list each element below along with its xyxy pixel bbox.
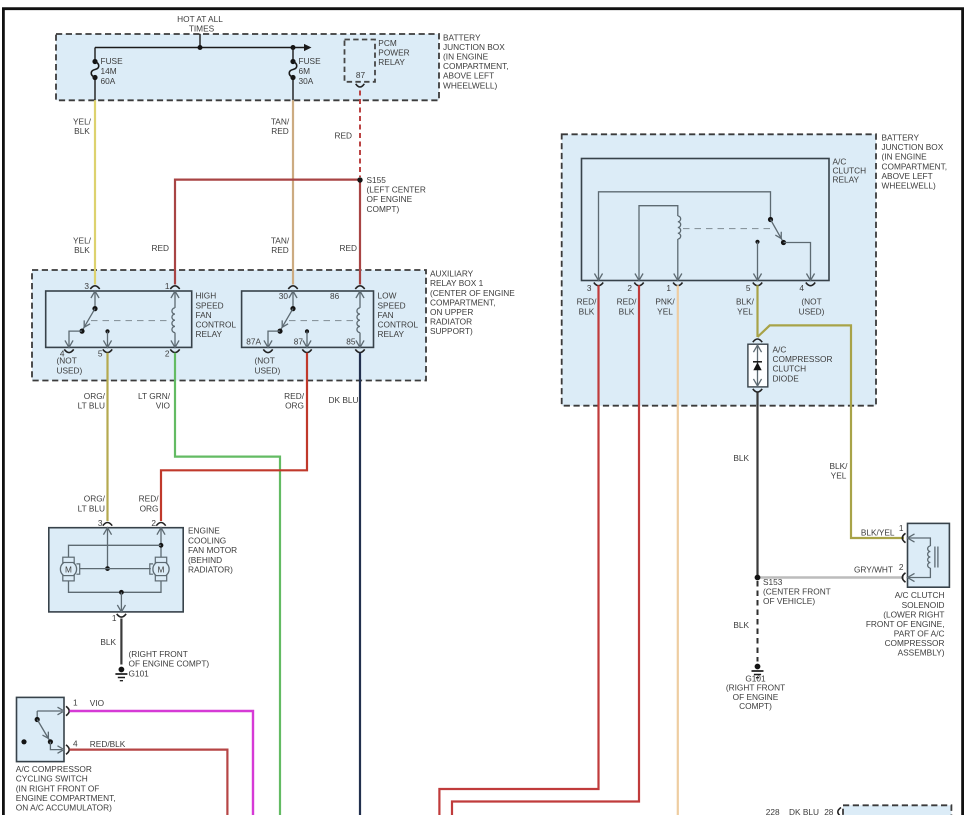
svg-text:COMPRESSOR: COMPRESSOR [773,354,833,364]
svg-text:TAN/: TAN/ [271,235,290,245]
svg-text:5: 5 [746,283,751,293]
svg-text:(LEFT CENTER: (LEFT CENTER [367,185,426,195]
svg-text:FAN MOTOR: FAN MOTOR [188,545,237,555]
svg-text:RADIATOR: RADIATOR [430,317,472,327]
svg-text:(RIGHT FRONT: (RIGHT FRONT [129,649,188,659]
svg-text:RELAY: RELAY [196,329,223,339]
svg-text:YEL: YEL [657,306,673,316]
svg-text:ORG/: ORG/ [84,494,106,504]
svg-text:30: 30 [279,291,289,301]
svg-text:(BEHIND: (BEHIND [188,555,222,565]
svg-text:(NOT: (NOT [255,356,275,366]
svg-text:A/C CLUTCH: A/C CLUTCH [895,590,945,600]
svg-text:RELAY: RELAY [378,329,405,339]
svg-text:VIO: VIO [156,401,171,411]
svg-text:(IN ENGINE: (IN ENGINE [882,152,928,162]
svg-text:BATTERY: BATTERY [882,133,920,143]
svg-text:BLK: BLK [619,306,635,316]
svg-text:BLK/YEL: BLK/YEL [861,528,895,538]
svg-text:S155: S155 [367,175,387,185]
svg-text:LT BLU: LT BLU [78,503,105,513]
svg-text:COMPT): COMPT) [367,204,400,214]
svg-text:60A: 60A [101,76,116,86]
svg-text:PART OF A/C: PART OF A/C [894,628,945,638]
svg-text:CYCLING SWITCH: CYCLING SWITCH [16,774,88,784]
svg-text:1: 1 [73,698,78,708]
svg-text:CONTROL: CONTROL [196,320,237,330]
svg-text:SPEED: SPEED [196,300,224,310]
svg-text:SOLENOID: SOLENOID [902,600,945,610]
svg-text:OF ENGINE COMPT): OF ENGINE COMPT) [129,659,210,669]
svg-text:FAN: FAN [196,310,212,320]
svg-text:1: 1 [112,613,117,623]
svg-text:COMPARTMENT,: COMPARTMENT, [443,61,509,71]
svg-text:2: 2 [627,283,632,293]
svg-text:GRY/WHT: GRY/WHT [854,565,893,575]
svg-text:RELAY: RELAY [378,57,405,67]
svg-text:RED/: RED/ [139,494,160,504]
svg-text:4: 4 [799,283,804,293]
svg-text:3: 3 [587,283,592,293]
svg-text:RED/: RED/ [617,297,638,307]
svg-text:RED/BLK: RED/BLK [90,739,126,749]
svg-text:RED/: RED/ [284,391,305,401]
svg-text:M: M [65,564,72,574]
svg-text:YEL: YEL [737,306,753,316]
svg-text:87A: 87A [246,336,261,346]
svg-text:COMPRESSOR: COMPRESSOR [885,638,945,648]
svg-text:85: 85 [346,336,356,346]
svg-text:YEL: YEL [831,471,847,481]
svg-text:FRONT OF ENGINE,: FRONT OF ENGINE, [866,619,945,629]
svg-text:BLK: BLK [733,620,749,630]
svg-text:1: 1 [666,283,671,293]
svg-text:14M: 14M [101,66,117,76]
svg-text:TAN/: TAN/ [271,116,290,126]
svg-text:6M: 6M [299,66,311,76]
svg-text:3: 3 [84,281,89,291]
svg-text:RED: RED [271,126,289,136]
svg-text:BLK: BLK [733,453,749,463]
svg-text:RED/: RED/ [577,297,598,307]
svg-text:DK BLU: DK BLU [789,807,819,815]
svg-text:ORG: ORG [285,401,304,411]
svg-text:ON A/C ACCUMULATOR): ON A/C ACCUMULATOR) [16,803,112,813]
svg-text:BLK: BLK [74,245,90,255]
svg-text:1: 1 [165,281,170,291]
svg-text:RADIATOR): RADIATOR) [188,565,233,575]
svg-text:2: 2 [899,562,904,572]
svg-text:ABOVE LEFT: ABOVE LEFT [882,171,933,181]
svg-text:RED: RED [339,243,357,253]
svg-text:BLK/: BLK/ [736,297,755,307]
svg-text:A/C: A/C [773,344,787,354]
svg-text:DIODE: DIODE [773,373,800,383]
svg-text:PNK/: PNK/ [655,297,675,307]
svg-text:RELAY BOX 1: RELAY BOX 1 [430,278,484,288]
svg-text:YEL/: YEL/ [73,116,92,126]
svg-text:HIGH: HIGH [196,291,217,301]
svg-text:LOW: LOW [378,291,397,301]
svg-text:DK BLU: DK BLU [329,395,359,405]
svg-text:WHEELWELL): WHEELWELL) [882,181,936,191]
svg-text:VIO: VIO [90,698,105,708]
svg-text:BLK/: BLK/ [830,461,849,471]
svg-text:87: 87 [294,336,304,346]
svg-text:G101: G101 [129,668,150,678]
svg-text:FUSE: FUSE [299,56,322,66]
svg-text:30A: 30A [299,76,314,86]
svg-text:228: 228 [766,807,780,815]
svg-text:FAN: FAN [378,310,394,320]
svg-text:BLK: BLK [579,306,595,316]
svg-text:SUPPORT): SUPPORT) [430,326,473,336]
svg-text:(LOWER RIGHT: (LOWER RIGHT [883,609,944,619]
svg-text:ENGINE COMPARTMENT,: ENGINE COMPARTMENT, [16,793,116,803]
svg-text:87: 87 [356,70,366,80]
svg-text:ORG: ORG [140,503,159,513]
svg-text:(CENTER OF ENGINE: (CENTER OF ENGINE [430,288,515,298]
svg-text:5: 5 [98,348,103,358]
svg-text:28: 28 [824,807,834,815]
svg-text:LT GRN/: LT GRN/ [138,391,171,401]
svg-text:SPEED: SPEED [378,300,406,310]
svg-text:AUXILIARY: AUXILIARY [430,269,474,279]
svg-text:ORG/: ORG/ [84,391,106,401]
svg-text:COMPT): COMPT) [739,701,772,711]
svg-text:USED): USED) [57,365,83,375]
svg-text:TIMES: TIMES [189,24,215,34]
svg-text:(NOT: (NOT [801,297,821,307]
svg-text:RED: RED [271,245,289,255]
svg-text:JUNCTION BOX: JUNCTION BOX [443,42,505,52]
svg-text:CONTROL: CONTROL [378,320,419,330]
svg-text:ASSEMBLY): ASSEMBLY) [898,648,945,658]
svg-text:ON UPPER: ON UPPER [430,307,473,317]
svg-text:COMPARTMENT,: COMPARTMENT, [430,297,496,307]
svg-text:LT BLU: LT BLU [78,401,105,411]
svg-text:OF VEHICLE): OF VEHICLE) [763,596,815,606]
svg-text:1: 1 [899,523,904,533]
svg-text:USED): USED) [255,365,281,375]
svg-text:3: 3 [98,518,103,528]
svg-text:HOT AT ALL: HOT AT ALL [177,14,223,24]
svg-text:JUNCTION BOX: JUNCTION BOX [882,142,944,152]
svg-text:A/C COMPRESSOR: A/C COMPRESSOR [16,764,92,774]
svg-text:RED: RED [334,131,352,141]
svg-text:4: 4 [73,739,78,749]
svg-text:WHEELWELL): WHEELWELL) [443,80,497,90]
svg-text:COOLING: COOLING [188,535,226,545]
svg-text:YEL/: YEL/ [73,235,92,245]
svg-text:BLK: BLK [74,126,90,136]
svg-text:BLK: BLK [100,637,116,647]
svg-text:CLUTCH: CLUTCH [773,364,807,374]
svg-text:2: 2 [165,348,170,358]
svg-text:RELAY: RELAY [833,175,860,185]
svg-text:ABOVE LEFT: ABOVE LEFT [443,71,494,81]
svg-text:ENGINE: ENGINE [188,526,220,536]
svg-text:COMPARTMENT,: COMPARTMENT, [882,161,948,171]
svg-text:OF ENGINE: OF ENGINE [367,194,413,204]
svg-text:2: 2 [151,518,156,528]
svg-text:BATTERY: BATTERY [443,32,481,42]
svg-text:(IN RIGHT FRONT OF: (IN RIGHT FRONT OF [16,783,100,793]
svg-text:RED: RED [151,243,169,253]
svg-text:(IN ENGINE: (IN ENGINE [443,52,489,62]
svg-text:M: M [158,564,165,574]
svg-text:USED): USED) [799,306,825,316]
svg-text:FUSE: FUSE [101,56,124,66]
svg-text:(NOT: (NOT [57,356,77,366]
svg-text:86: 86 [330,291,340,301]
